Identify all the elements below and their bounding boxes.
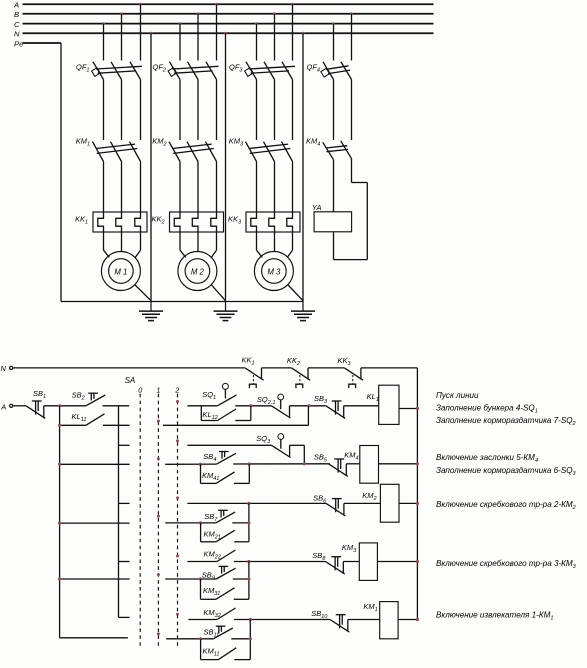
button SB3 [314, 394, 345, 418]
thermal contact KK2 [287, 356, 310, 388]
node tap phase A branch 3 [291, 3, 294, 6]
wire KM3 coil to rail [377, 560, 419, 563]
wire QF1 to KM1 pole B [121, 80, 123, 141]
wire SQ3 to drop [290, 445, 305, 464]
bus Pe [23, 42, 62, 44]
wire phase B drop to QF1 [121, 14, 123, 61]
wire QF4 to KM4 contacts [334, 80, 352, 141]
node row3 junction [247, 502, 250, 505]
wire KM2 to KK2 pole A [216, 162, 218, 213]
contactor KM1 main contacts [76, 137, 141, 162]
contactor coil KM2 [362, 484, 399, 522]
svg-text:SB10: SB10 [311, 609, 328, 620]
bus B [23, 13, 434, 15]
wire left rail [59, 406, 61, 638]
wire N line to KK1 [13, 367, 245, 369]
wire phase C drop to QF1 [103, 24, 105, 61]
wire KM1 to KK1 pole C [103, 162, 105, 213]
wire SB8 to KM3 coil [343, 561, 359, 563]
wire KM2 coil to rail [399, 502, 419, 505]
wire motor M1 frame bond [135, 285, 151, 301]
svg-text:N: N [14, 30, 20, 39]
annotation Пуск линии [436, 391, 479, 400]
relay coil KL1 [367, 385, 399, 424]
svg-text:M 3: M 3 [267, 267, 281, 276]
svg-text:Заполнение кормораздатчика 7-S: Заполнение кормораздатчика 7-SQ2 [436, 416, 576, 427]
svg-text:SQ2.1: SQ2.1 [257, 395, 276, 406]
wire rung1 segment b [235, 405, 271, 407]
contactor coil KM3 [342, 543, 378, 581]
wire row5 rise [249, 620, 251, 660]
svg-text:Пуск линии: Пуск линии [436, 391, 479, 400]
wire motor M2 frame bond [211, 285, 225, 301]
wire KL11 branch [60, 424, 86, 426]
wire KK2 to motor M2 leads [180, 232, 217, 257]
wire SB3 to KL1 coil [344, 405, 379, 407]
wire KM3 to KK3 pole A [292, 162, 294, 213]
limit switch SQ3 [256, 434, 290, 458]
motor M2 [178, 252, 217, 291]
wire KK1 to KK2 [262, 367, 292, 369]
node KM11 bypass left [199, 637, 202, 640]
svg-text:0: 0 [138, 385, 142, 394]
wire KK3 to motor M3 leads [257, 232, 293, 257]
node KL11 branch left [58, 424, 61, 427]
node tap phase B branch 3 [273, 12, 276, 15]
wire row5 even segment b [231, 638, 250, 640]
wire row5 even line [166, 638, 213, 640]
wire SB5 to KM4 coil [346, 463, 360, 465]
svg-text:SB2: SB2 [72, 391, 85, 402]
wire tie row2 [58, 463, 130, 466]
wire row4 even line [165, 578, 216, 580]
wire QF2 to KM2 pole B [197, 80, 199, 141]
bus A [23, 3, 434, 5]
svg-text:A: A [0, 403, 6, 412]
wire KL11 to SA stub [103, 424, 130, 426]
svg-text:1: 1 [156, 385, 160, 394]
wire A terminal to SB1 [13, 405, 26, 407]
svg-text:B: B [14, 10, 19, 19]
wire QF2 to KM2 pole C [179, 80, 181, 141]
svg-text:KK3: KK3 [338, 356, 352, 367]
node row4 even right [247, 577, 250, 580]
wire row3 rise [248, 503, 250, 541]
wire KK3 to right rail [361, 367, 418, 369]
node row5 even right [249, 637, 252, 640]
thermal relay KK3 heaters [228, 212, 300, 232]
wire SB10 to KM1 coil [348, 619, 380, 621]
wire QF3 to KM3 pole A [292, 80, 294, 141]
button SB8 [312, 551, 345, 574]
thermal contact KK3 [338, 356, 364, 388]
limit switch SQ2.1 [257, 394, 291, 418]
annotation Заполнение бункера 4-SQ [436, 404, 538, 415]
wire QF2 to KM2 pole A [216, 80, 218, 141]
circuit breaker QF4 [307, 62, 352, 80]
node rung1 left rail junction [58, 404, 61, 407]
wire phase A drop to QF1 [140, 4, 142, 60]
wire KM3 to KK3 pole B [274, 162, 276, 213]
svg-text:SB8: SB8 [312, 551, 326, 562]
wire QF1 to KM1 pole C [103, 80, 105, 141]
svg-text:QF2: QF2 [153, 62, 166, 73]
node tap N branch 1 [150, 32, 153, 35]
button SB2 [72, 391, 106, 406]
wire row4 even segment b [233, 578, 249, 580]
svg-text:KM3: KM3 [342, 543, 357, 554]
annotation Заполнение кормораздатчика 6-SQ [436, 466, 577, 477]
wire KM2 to KK2 pole B [197, 162, 199, 213]
svg-text:Включение извлекателя 1-КМ1: Включение извлекателя 1-КМ1 [436, 611, 553, 622]
wire SB6 to KM2 coil [344, 502, 381, 504]
wire QF3 to KM3 pole C [256, 80, 258, 141]
wire KM1 to KK1 pole A [140, 162, 142, 213]
contact KM31 bypass [201, 579, 249, 599]
svg-text:KM3: KM3 [229, 137, 244, 148]
wire rung1 segment a [187, 405, 217, 407]
thermal relay KK1 heaters [75, 212, 147, 232]
svg-text:KM1: KM1 [363, 602, 377, 613]
contact KM32 interlock [203, 608, 235, 620]
wire N drop branch 3 [302, 33, 304, 301]
wire KL1 coil to rail [399, 407, 419, 410]
node row3 even right [247, 521, 250, 524]
node tap phase C branch 2 [179, 22, 182, 25]
svg-text:SB7: SB7 [204, 512, 218, 523]
wire row3 coil line [187, 502, 326, 504]
circuit breaker QF2 [153, 62, 219, 80]
svg-text:A: A [13, 1, 19, 10]
ground branch 2 [214, 302, 238, 321]
svg-text:KK1: KK1 [75, 214, 88, 225]
bus label N [14, 30, 20, 39]
svg-text:C: C [14, 20, 20, 29]
wire tie row3 [58, 522, 130, 525]
svg-text:SB11: SB11 [204, 628, 220, 639]
button SB11 [204, 626, 233, 639]
svg-text:M 1: M 1 [114, 267, 127, 276]
svg-text:SB3: SB3 [314, 394, 328, 405]
button SB7 [204, 510, 235, 523]
wire PE down conductor [60, 43, 62, 302]
node tap phase C branch 4 [332, 22, 335, 25]
contact KL12 bypass [201, 406, 251, 421]
SA position-1 contact marks [157, 420, 160, 636]
wire phase drops to QF4 [334, 14, 352, 61]
svg-text:KM4: KM4 [306, 137, 320, 148]
svg-text:KM21: KM21 [204, 530, 221, 541]
wire motor M3 frame bond [288, 285, 303, 301]
annotation Заполнение кормораздатчика 7-SQ [436, 416, 576, 427]
svg-text:KK2: KK2 [152, 214, 165, 225]
node tap phase C branch 3 [255, 22, 258, 25]
svg-text:SB5: SB5 [314, 453, 328, 464]
svg-text:KM41: KM41 [202, 471, 219, 482]
button SB1 [26, 389, 46, 419]
svg-text:KL12: KL12 [203, 410, 218, 421]
SA position-2 contact marks [176, 400, 179, 616]
contact KM41 bypass [201, 464, 250, 483]
svg-text:YA: YA [312, 203, 322, 212]
svg-text:KL1: KL1 [367, 392, 379, 403]
wire KM4 coil to rail [379, 462, 420, 465]
thermal contact KK1 [242, 356, 264, 389]
wire phase B drop to QF2 [197, 14, 199, 61]
wire KM1 to KK1 pole B [121, 162, 123, 213]
node tap phase B branch 2 [197, 12, 200, 15]
svg-text:SA: SA [125, 376, 136, 385]
wire SA stub rung KM3 [119, 561, 130, 563]
bus label B [14, 10, 19, 19]
contactor KM3 main contacts [229, 137, 293, 162]
node terminal N [1, 364, 13, 373]
wire row2 segment a [165, 463, 216, 465]
wire right rail N [416, 368, 418, 621]
wire SA stub rung SQ3 [119, 444, 130, 446]
node tap phase A branch 2 [215, 3, 218, 6]
node row5 junction [249, 618, 252, 621]
svg-text:SQ1: SQ1 [202, 390, 216, 401]
wire row3 even segment b [232, 522, 249, 524]
svg-text:2: 2 [174, 385, 179, 394]
wire QF3 to KM3 pole B [274, 80, 276, 141]
wire tie row5 bottom [60, 637, 128, 639]
wire row5 coil line a [188, 619, 217, 621]
wire N drop branch 2 [225, 33, 227, 301]
circuit breaker QF3 [229, 62, 295, 80]
circuit breaker QF1 [76, 62, 142, 80]
svg-text:KM11: KM11 [203, 647, 220, 658]
svg-text:KM31: KM31 [203, 586, 220, 597]
wire KM4 to YA coil [333, 160, 335, 212]
contactor KM2 main contacts [152, 137, 216, 162]
bus label A [13, 1, 19, 10]
wire phase A drop to QF2 [216, 4, 218, 60]
svg-text:KM2: KM2 [152, 137, 166, 148]
contact KM11 bypass [201, 639, 251, 660]
bus label C [14, 20, 20, 29]
svg-text:KM32: KM32 [203, 608, 220, 619]
wire YA return loop [334, 159, 368, 260]
svg-text:Заполнение бункера 4-SQ1: Заполнение бункера 4-SQ1 [436, 404, 538, 415]
wire KM3 to KK3 pole C [256, 162, 258, 213]
wire row4 rise [248, 562, 250, 600]
button SB9 [202, 566, 236, 581]
svg-text:SB1: SB1 [33, 389, 46, 400]
svg-text:Pe: Pe [14, 39, 23, 48]
wire SA common vertical [118, 406, 120, 618]
node KL12 bypass right [249, 404, 252, 407]
node KM41 bypass left [199, 463, 202, 466]
contactor KM4 contacts [306, 137, 352, 160]
svg-text:SQ3: SQ3 [256, 434, 271, 445]
wire phase C drop to QF2 [179, 24, 181, 61]
annotation Включение извлекателя 1-КМ [436, 611, 553, 622]
motor M1 [101, 252, 140, 291]
node tap phase A branch 1 [139, 3, 142, 6]
bus label Pe [14, 39, 23, 48]
node SQ3 drop junction [303, 462, 306, 465]
contact KL11 [72, 412, 105, 425]
node row4 junction [247, 560, 250, 563]
svg-text:QF3: QF3 [229, 62, 243, 73]
node KM21 bypass left [199, 521, 202, 524]
svg-text:QF1: QF1 [76, 62, 89, 73]
button SB5 [314, 453, 348, 477]
svg-text:N: N [1, 364, 7, 373]
wire phase A drop to QF3 [292, 4, 294, 60]
wire row4 coil line a [187, 561, 217, 563]
wire SB1 to SB2 [44, 405, 86, 407]
node tap phase B branch 1 [120, 12, 123, 15]
contactor coil KM1 [363, 602, 398, 639]
wire SQ3 line [187, 444, 271, 446]
wire rung1a position-1 bypass [163, 406, 308, 426]
svg-text:Включение скребкового тр-ра 2: Включение скребкового тр-ра 2-КМ2 [436, 500, 576, 511]
svg-text:KK1: KK1 [242, 356, 255, 367]
wire KM2 to KK2 pole C [179, 162, 181, 213]
svg-text:KM1: KM1 [76, 137, 90, 148]
svg-text:KM2: KM2 [362, 491, 376, 502]
contactor coil KM4 [344, 446, 378, 484]
node terminal A [0, 403, 13, 412]
wire SA stub rung KM2 [119, 502, 130, 504]
node rung1a rise junction [307, 404, 310, 407]
wire SA stub rung KM1 [119, 616, 130, 618]
wire tie row4 [58, 577, 130, 580]
wire QF1 to KM1 pole A [140, 80, 142, 141]
button SB10 [311, 609, 349, 632]
svg-text:KK3: KK3 [228, 214, 242, 225]
wire phase B drop to QF3 [274, 14, 276, 61]
node tap phase B branch 4 [350, 12, 353, 15]
svg-text:KK2: KK2 [287, 356, 300, 367]
svg-text:KM4: KM4 [344, 450, 358, 461]
node tap N branch 3 [302, 32, 305, 35]
svg-text:KM22: KM22 [204, 549, 221, 560]
ground branch 3 [291, 302, 315, 321]
wire row5 coil line b [234, 619, 330, 621]
bus N [23, 32, 434, 34]
node tap phase C branch 1 [102, 22, 105, 25]
svg-text:Включение скребкового тр-ра 3: Включение скребкового тр-ра 3-КМ3 [436, 559, 577, 570]
annotation Включение скребкового тр-ра 3-КМ [436, 559, 577, 570]
svg-text:M 2: M 2 [191, 267, 205, 276]
wire SB2 to SA common [103, 405, 130, 407]
wire rung1 segment c [290, 405, 326, 407]
contact KM21 bypass [201, 523, 249, 542]
motor M3 [254, 252, 293, 291]
annotation Включение скребкового тр-ра 2-КМ [436, 500, 576, 511]
annotation Включение заслонки 5-КМ [436, 453, 538, 464]
wire phase C drop to QF3 [256, 24, 258, 61]
button SB6 [313, 494, 345, 517]
svg-text:Заполнение кормораздатчика 6-S: Заполнение кормораздатчика 6-SQ3 [436, 466, 577, 477]
thermal relay KK2 heaters [152, 212, 224, 232]
wire row4 coil line b [234, 561, 326, 563]
wire KM1 coil to rail [398, 618, 419, 621]
wire row3 even line [165, 522, 216, 524]
svg-text:Включение заслонки 5-КМ4: Включение заслонки 5-КМ4 [436, 453, 538, 464]
wire PE rail [61, 301, 303, 303]
ground branch 1 [139, 302, 163, 321]
svg-text:KL11: KL11 [72, 412, 87, 423]
selector switch SA position lines [125, 376, 180, 648]
node KM41 bypass right [248, 462, 251, 465]
wire N drop branch 1 [150, 33, 152, 301]
electromagnet coil YA [312, 203, 352, 232]
wire KK2 to KK3 [308, 367, 344, 369]
contact KM22 interlock [204, 549, 236, 561]
svg-text:SB4: SB4 [203, 452, 216, 463]
button SB4 [203, 452, 236, 465]
node KM31 bypass left [199, 577, 202, 580]
node tap N branch 2 [224, 32, 227, 35]
limit switch SQ1 [202, 383, 236, 405]
svg-text:QF4: QF4 [307, 62, 320, 73]
wire KK1 to motor M1 leads [104, 232, 141, 257]
bus C [23, 23, 434, 25]
wire row2 segment b [233, 463, 330, 465]
